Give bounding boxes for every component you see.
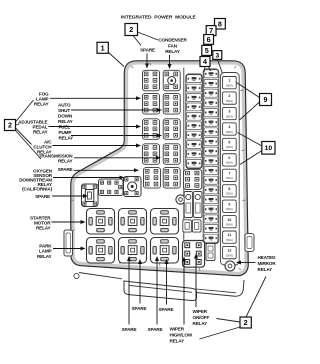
- svg-text:WIPERON/OFFRELAY: WIPERON/OFFRELAY: [193, 309, 210, 326]
- svg-text:10: 10: [265, 145, 273, 152]
- svg-text:3: 3: [215, 52, 219, 59]
- svg-text:1: 1: [101, 43, 105, 52]
- svg-text:(50A): (50A): [226, 192, 233, 196]
- svg-text:SPARE: SPARE: [148, 327, 163, 332]
- svg-text:11: 11: [227, 233, 231, 237]
- svg-text:5: 5: [205, 46, 209, 55]
- svg-text:2: 2: [129, 25, 133, 34]
- svg-text:(50A): (50A): [226, 83, 233, 87]
- svg-text:6: 6: [228, 156, 230, 160]
- svg-text:(50A): (50A): [226, 99, 233, 103]
- svg-text:(50A): (50A): [226, 176, 233, 180]
- svg-text:1: 1: [228, 79, 230, 83]
- svg-text:(50A): (50A): [226, 145, 233, 149]
- svg-text:8: 8: [228, 187, 230, 191]
- svg-text:2: 2: [8, 121, 12, 130]
- svg-text:(50A): (50A): [226, 207, 233, 211]
- svg-text:(50A): (50A): [226, 253, 233, 257]
- svg-text:SPARE: SPARE: [35, 194, 50, 199]
- svg-text:4: 4: [228, 125, 230, 129]
- svg-text:9: 9: [264, 95, 268, 104]
- svg-text:5: 5: [228, 141, 230, 145]
- svg-text:SPARE: SPARE: [122, 327, 137, 332]
- svg-text:2: 2: [228, 94, 230, 98]
- svg-text:8: 8: [218, 19, 222, 28]
- svg-text:12: 12: [227, 249, 231, 253]
- svg-text:6: 6: [207, 35, 211, 44]
- svg-text:(50A): (50A): [226, 222, 233, 226]
- svg-text:SPARE: SPARE: [58, 167, 73, 172]
- svg-text:7: 7: [228, 171, 230, 175]
- svg-text:INTEGRATED POWER MODULE: INTEGRATED POWER MODULE: [121, 15, 197, 21]
- svg-text:2: 2: [244, 318, 248, 327]
- svg-text:3: 3: [228, 110, 230, 114]
- svg-text:(50A): (50A): [226, 114, 233, 118]
- svg-text:7: 7: [209, 26, 213, 35]
- svg-text:PARKLAMPRELAY: PARKLAMPRELAY: [37, 243, 53, 259]
- svg-text:SPARE: SPARE: [132, 306, 147, 311]
- svg-text:(50A): (50A): [226, 238, 233, 242]
- svg-text:9: 9: [228, 202, 230, 206]
- svg-text:SPARE: SPARE: [140, 48, 155, 53]
- svg-text:(50A): (50A): [226, 130, 233, 134]
- svg-text:SPARE: SPARE: [159, 307, 174, 312]
- svg-text:4: 4: [203, 57, 207, 66]
- svg-text:(50A): (50A): [226, 161, 233, 165]
- svg-text:10: 10: [227, 218, 231, 222]
